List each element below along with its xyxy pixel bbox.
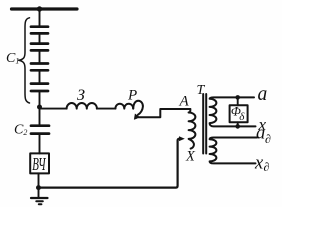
svg-text:А: А <box>179 94 190 110</box>
svg-text:C1: C1 <box>6 51 19 66</box>
svg-text:З: З <box>77 87 85 104</box>
svg-text:δ: δ <box>239 111 245 123</box>
svg-text:a: a <box>258 84 268 105</box>
svg-text:∂: ∂ <box>264 160 270 174</box>
svg-text:Р: Р <box>127 88 137 104</box>
svg-text:ВЧ: ВЧ <box>32 156 46 175</box>
svg-text:C2: C2 <box>14 123 27 138</box>
svg-text:∂: ∂ <box>265 132 271 146</box>
svg-text:x: x <box>254 154 264 174</box>
svg-text:a: a <box>256 124 265 144</box>
svg-text:Т: Т <box>197 83 206 98</box>
svg-text:Х: Х <box>185 149 196 165</box>
